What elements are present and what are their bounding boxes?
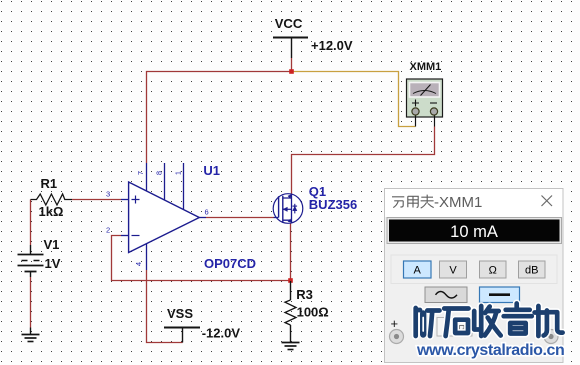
svg-text:VCC: VCC [275,16,303,31]
svg-text:+: + [391,316,399,331]
resistor R3 [285,281,329,343]
node VCC junction [289,69,294,74]
battery V1 [18,237,61,277]
power VCC [273,16,353,72]
svg-text:www.crystalradio.cn: www.crystalradio.cn [416,342,564,359]
svg-text:V1: V1 [44,237,60,252]
wire R1 to opamp pin3 [72,199,121,201]
wire opamp output to Q1 gate [206,217,274,219]
svg-text:1kΩ: 1kΩ [39,204,64,219]
dialog terminal right [544,330,558,344]
button Ohm [480,261,507,278]
svg-text:+12.0V: +12.0V [311,38,353,53]
wire XMM1 minus to Q1 drain [292,127,435,195]
wire Q1 source to node A [290,223,292,281]
dialog display 10 mA [387,217,563,244]
svg-text:V: V [449,265,457,277]
button square wave (active) [480,287,520,303]
dialog terminal left [390,330,404,344]
watermark kuang-shi-shou-yin-ji [416,304,563,337]
wire VSS to opamp pin4 [147,270,183,343]
resistor R1 [31,176,73,219]
set button glyph fragment [460,325,465,330]
wire opamp pin2 feedback to node A [112,236,291,281]
svg-text:OP07CD: OP07CD [204,256,256,271]
svg-text:2: 2 [106,226,110,235]
svg-text:R3: R3 [296,287,313,302]
svg-text:VSS: VSS [167,306,193,321]
svg-text:U1: U1 [203,163,220,178]
node A junction [288,278,293,283]
button dB [519,261,546,278]
button V [440,261,467,278]
button A (active) [404,261,432,278]
svg-text:4: 4 [134,262,143,266]
dialog close button [542,196,553,207]
svg-text:R1: R1 [41,176,58,191]
svg-text:100Ω: 100Ω [297,305,329,320]
ground for V1 [22,328,40,342]
svg-text:-12.0V: -12.0V [202,326,241,341]
svg-text:BUZ356: BUZ356 [309,197,357,212]
svg-text:Ω: Ω [489,265,497,277]
svg-text:1V: 1V [45,256,61,271]
svg-text:-XMM1: -XMM1 [434,194,482,211]
dialog set button (partially hidden) [437,318,472,337]
svg-text:dB: dB [525,265,538,277]
wire VCC junction to XMM1 plus (orange) [292,72,416,127]
dialog title wan-yong-biao [392,195,434,209]
transistor Q1 [273,184,357,223]
svg-text:6: 6 [205,208,209,217]
svg-text:XMM1: XMM1 [410,61,442,73]
svg-text:8: 8 [155,171,164,175]
svg-text:10 mA: 10 mA [450,223,498,241]
multimeter dialog window [385,189,564,363]
svg-text:A: A [414,265,422,277]
wire VCC junction to opamp pin7 [147,72,292,164]
ground for R3 [282,343,300,350]
multimeter XMM1 icon [407,61,443,127]
dialog mode group box [391,255,557,284]
svg-text:1: 1 [174,171,183,175]
watermark kuang-shi-shou-yin-ji halo [416,304,563,337]
wire R1 to V1 [30,200,32,246]
button sine wave [425,287,467,303]
op-amp U1 [121,163,256,271]
power VSS [164,306,240,343]
watermark ring slot [422,318,424,332]
wire V1 to ground [30,277,32,328]
svg-text:7: 7 [136,171,145,175]
svg-text:3: 3 [106,190,110,199]
